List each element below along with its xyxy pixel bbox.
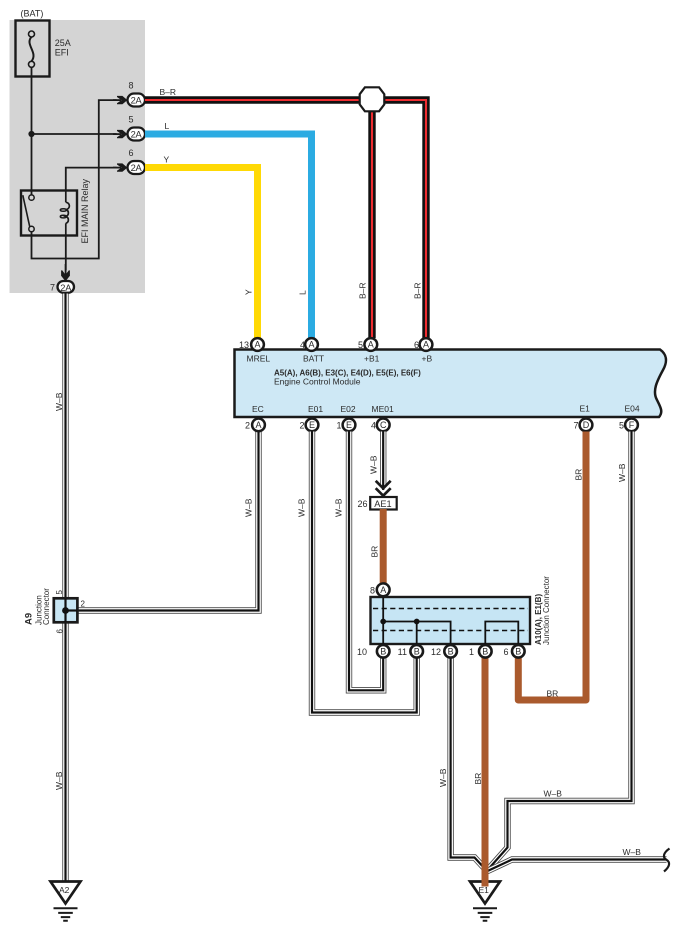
svg-text:25A: 25A (55, 38, 71, 48)
svg-text:E1: E1 (580, 404, 591, 414)
svg-text:F: F (629, 420, 635, 430)
connector 2A pin 8 (128, 94, 146, 107)
wire Y connector6 to MREL (145, 168, 258, 339)
svg-text:+B1: +B1 (364, 354, 380, 364)
junction connector A9 (54, 598, 78, 622)
svg-text:A9: A9 (24, 613, 35, 625)
connector 2A pin 7 (58, 281, 75, 293)
svg-text:AE1: AE1 (374, 499, 391, 509)
svg-text:L: L (165, 121, 170, 131)
wire W-B ME01 to AE1 (380, 432, 386, 491)
pin 10 B (377, 645, 390, 658)
arrow into connector 7 (61, 270, 70, 281)
svg-text:Y: Y (164, 155, 170, 165)
pin 1 E E02 (343, 419, 356, 432)
wire W-B A9 down to ground A2 (62, 622, 68, 881)
break mark (664, 849, 670, 872)
wire W-B E01 to pin11 (312, 432, 417, 713)
wire B-R octagon down to +B1 (368, 100, 375, 338)
pin 2 E E01 (306, 419, 319, 432)
shield arrows into AE1 (376, 481, 391, 496)
node battery feed dot (28, 131, 34, 137)
svg-text:12: 12 (431, 647, 441, 657)
internal wire to pin 12 (383, 622, 450, 647)
arrow into connector 8 (117, 96, 127, 104)
relay EFI MAIN Relay (21, 191, 77, 236)
svg-text:5: 5 (619, 420, 624, 430)
wire W-B EC to A9 pin 2 (79, 432, 259, 611)
svg-text:B: B (380, 647, 386, 657)
svg-text:BR: BR (547, 689, 559, 699)
svg-text:6: 6 (56, 629, 65, 634)
node A9 dot (62, 607, 69, 614)
svg-text:2A: 2A (60, 283, 72, 293)
svg-text:8: 8 (370, 585, 375, 595)
svg-text:2A: 2A (131, 130, 143, 140)
wire W-B E02 to pin10 (349, 432, 383, 691)
svg-text:E: E (346, 420, 352, 430)
svg-text:B: B (448, 647, 454, 657)
pin 4 C ME01 (377, 419, 390, 432)
svg-text:4: 4 (300, 340, 305, 350)
svg-text:B–R: B–R (413, 282, 423, 299)
svg-text:+B: +B (422, 354, 433, 364)
svg-text:Engine Control Module: Engine Control Module (274, 377, 361, 387)
wire relay switch out to connector 8 (32, 100, 119, 258)
svg-text:8: 8 (129, 81, 134, 91)
wire L connector5 to BATT (145, 134, 312, 338)
svg-text:ME01: ME01 (372, 404, 394, 414)
svg-text:Connector: Connector (42, 588, 51, 625)
svg-text:W–B: W–B (623, 847, 642, 857)
internal wire pin1-pin6 (485, 622, 518, 647)
wire BR pin1 down to ground E1 (482, 651, 489, 887)
svg-text:B: B (414, 647, 420, 657)
wire W-B ground E1 to right break (487, 860, 667, 872)
svg-text:EFI: EFI (55, 48, 69, 58)
arrow into connector 6 (117, 163, 127, 171)
pin 13 A MREL (251, 338, 264, 351)
svg-text:E04: E04 (625, 404, 640, 414)
ground E1 (470, 882, 500, 921)
svg-text:MREL: MREL (247, 354, 271, 364)
connector AE1 (370, 497, 397, 510)
svg-text:6: 6 (129, 148, 134, 158)
svg-text:BR: BR (370, 546, 380, 558)
wire B-R connector8 to octagon to +B (145, 100, 426, 338)
ground A2 (51, 882, 81, 921)
pin 4 A BATT (305, 338, 318, 351)
svg-text:BR: BR (473, 773, 483, 785)
svg-text:2: 2 (299, 420, 304, 430)
svg-text:E1: E1 (479, 885, 490, 895)
svg-text:W–B: W–B (54, 771, 64, 790)
svg-text:A: A (254, 340, 260, 350)
wire BR E1(D) down to pin6 (518, 432, 586, 701)
ECM box (235, 350, 666, 418)
pin 8 A (377, 583, 390, 596)
svg-text:6: 6 (414, 340, 419, 350)
svg-text:E01: E01 (308, 404, 323, 414)
svg-text:1: 1 (336, 420, 341, 430)
svg-text:C: C (380, 420, 387, 430)
wire to connector 5 (32, 133, 119, 135)
svg-text:D: D (583, 420, 590, 430)
svg-text:A: A (380, 585, 386, 595)
wire W-B connector7 down to A9 (62, 294, 68, 599)
pin 1 B (479, 645, 492, 658)
svg-text:13: 13 (239, 340, 249, 350)
pin 6 A +B (420, 338, 433, 351)
svg-text:W–B: W–B (244, 498, 254, 517)
wire W-B E04 down to ground E1 (488, 432, 632, 870)
svg-text:5: 5 (55, 590, 64, 595)
svg-text:7: 7 (50, 283, 55, 293)
svg-text:Junction Connector: Junction Connector (542, 576, 551, 645)
node dot (414, 619, 420, 625)
svg-text:26: 26 (357, 499, 367, 509)
svg-text:B: B (482, 647, 488, 657)
svg-text:A: A (423, 340, 429, 350)
svg-text:Y: Y (244, 289, 254, 295)
connector 2A pin 5 (128, 128, 146, 141)
svg-text:6: 6 (503, 647, 508, 657)
fuse 25A EFI (16, 21, 50, 77)
svg-text:W–B: W–B (54, 392, 64, 411)
wire W-B pin12 to ground E1 (451, 651, 487, 871)
wire relay coil low to connector 7 (65, 236, 67, 273)
svg-text:L: L (298, 290, 308, 295)
svg-text:B: B (515, 647, 521, 657)
svg-text:B–R: B–R (160, 87, 177, 97)
wire BR AE1 down to A10 pin 8 (380, 509, 387, 584)
junction connector A10(A) E1(B) (371, 597, 531, 644)
pin 11 B (410, 645, 423, 658)
svg-text:5: 5 (129, 115, 134, 125)
svg-text:BR: BR (574, 469, 584, 481)
svg-text:E02: E02 (341, 404, 356, 414)
svg-text:W–B: W–B (617, 463, 627, 482)
pin 6 B (512, 645, 525, 658)
svg-text:A2: A2 (59, 885, 70, 895)
wire relay coil to connector 6 (66, 168, 119, 191)
node dot (380, 619, 386, 625)
svg-text:W–B: W–B (438, 768, 448, 787)
svg-text:BATT: BATT (303, 354, 324, 364)
svg-text:A: A (368, 340, 374, 350)
wire fuse down to relay switch (31, 67, 33, 195)
svg-text:W–B: W–B (297, 498, 307, 517)
arrow into connector 5 (117, 130, 127, 138)
svg-text:5: 5 (358, 340, 363, 350)
internal wire pin8-pin10 (382, 597, 384, 646)
pin 12 B (444, 645, 457, 658)
svg-text:1: 1 (469, 647, 474, 657)
pin 5 F E04 (625, 419, 638, 432)
svg-text:A: A (255, 420, 261, 430)
internal wire to pin 11 (416, 622, 418, 647)
svg-text:W–B: W–B (544, 789, 563, 799)
svg-text:11: 11 (398, 647, 407, 657)
svg-text:A: A (308, 340, 314, 350)
svg-text:2A: 2A (131, 96, 143, 106)
svg-text:10: 10 (357, 647, 367, 657)
svg-text:2A: 2A (131, 163, 143, 173)
pin 2 A EC (252, 419, 265, 432)
svg-text:EFI MAIN Relay: EFI MAIN Relay (80, 178, 90, 243)
node octagon junction (360, 87, 385, 111)
gray harness box (10, 20, 146, 293)
svg-text:E: E (309, 420, 315, 430)
svg-text:W–B: W–B (369, 455, 379, 474)
svg-text:W–B: W–B (334, 498, 344, 517)
svg-text:B–R: B–R (358, 282, 368, 299)
svg-text:7: 7 (573, 420, 578, 430)
connector 2A pin 6 (128, 161, 146, 174)
svg-text:2: 2 (81, 600, 86, 609)
svg-text:4: 4 (371, 420, 376, 430)
pin 7 D E1 (580, 419, 593, 432)
svg-text:EC: EC (252, 404, 264, 414)
svg-text:2: 2 (245, 420, 250, 430)
svg-text:(BAT): (BAT) (21, 9, 44, 19)
pin 5 A +B1 (364, 338, 377, 351)
